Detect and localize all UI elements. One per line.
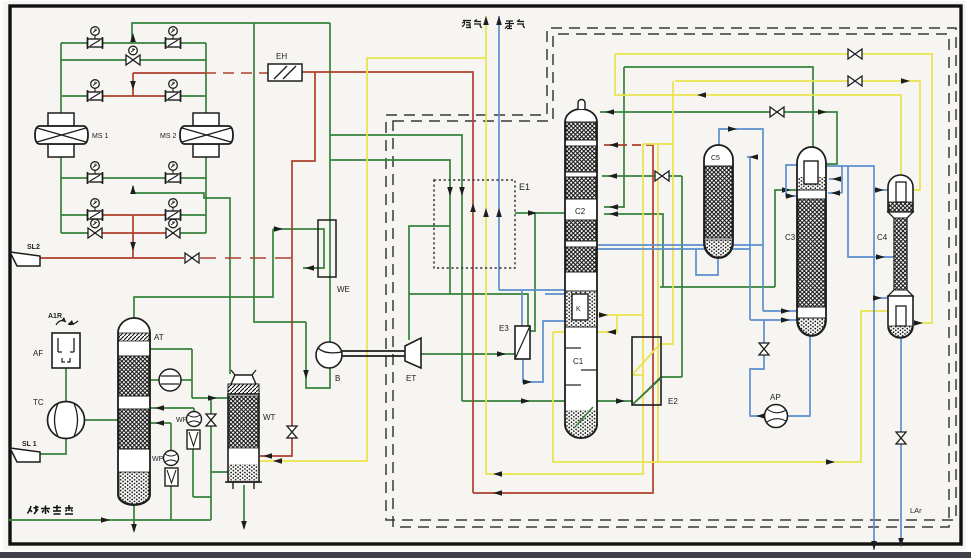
wire green MS valve row B y60 (61, 59, 206, 61)
wire green column C2 feed y207 from x624 (604, 67, 624, 207)
wire blue into C5 top y157 riser x750 (747, 157, 750, 320)
svg-text:C4: C4 (877, 233, 888, 242)
svg-text:AT: AT (154, 333, 164, 342)
wire green MS right riser x206 (205, 43, 207, 113)
wire green WP2 down to water line (170, 482, 172, 520)
wire blue K condenser oxygen line y290 (499, 289, 565, 291)
wire blue LAr product line x901 (900, 338, 902, 432)
wire green E1 mid tap to E3 y294 (409, 294, 528, 326)
wire green WP1 discharge into AT y408 (150, 407, 194, 409)
svg-text:SL2: SL2 (27, 244, 40, 251)
wire green row y233 outer segments (61, 232, 95, 234)
svg-text:MS 2: MS 2 (160, 133, 176, 140)
molecular sieve MS1 (48, 113, 74, 126)
wire green riser x306 to blower B inlet (306, 322, 330, 388)
column C1 tray lines (565, 347, 581, 349)
valve row y215 right (166, 211, 181, 219)
wire green C3 band tap riser x775 (775, 190, 797, 287)
expansion turbine ET (405, 338, 421, 368)
wire red SL2 silencer line y258 (40, 257, 184, 259)
svg-text:C5: C5 (711, 155, 720, 162)
C3 bottom dotted liquid (798, 318, 825, 335)
svg-text:SL 1: SL 1 (22, 441, 37, 448)
wire green row y178 below MS (61, 177, 206, 179)
svg-text:ET: ET (406, 374, 416, 383)
label nitrogen gas chinese (462, 20, 482, 28)
main column shell C1 C2 (565, 109, 597, 438)
condenser K dotted liquid zone (566, 291, 596, 327)
wire green ET to E3 y354 (421, 353, 515, 355)
wire green top loop y112 column dome to C3 (600, 112, 837, 164)
wire yellow K condenser outlet (588, 314, 643, 316)
wire yellow top loop y54 (615, 54, 932, 323)
wire green blower B top riser x330 and feed to E1 (329, 23, 331, 342)
svg-text:WT: WT (263, 413, 276, 422)
wire green column line y214 riser x663 (604, 214, 663, 287)
water pump WP1 motor (187, 430, 200, 449)
valve row D left (88, 92, 103, 100)
subcooler E3 (515, 326, 530, 359)
wire blue AP pump riser with valve (750, 320, 765, 416)
wire green TC to AT (85, 419, 118, 421)
wire blue oxygen product riser x499 (498, 16, 500, 290)
column C2 packing sections crosshatch (566, 122, 596, 140)
wire blue C5 bottom loop (696, 249, 718, 275)
valve LAr line (896, 432, 906, 444)
molecular sieve MS2 (193, 113, 219, 126)
wire red EH feed header y73 (133, 72, 205, 74)
svg-text:AF: AF (33, 349, 43, 358)
valve green loop y112 (770, 107, 784, 117)
valve yellow top y54 (848, 49, 862, 59)
wire green B discharge to E1 x462 (330, 135, 462, 401)
heat exchanger E1 dotted box (434, 180, 515, 268)
cold box boundary outer dashed wall (386, 28, 956, 520)
wire blue column to C5 bottom header y245 (597, 244, 763, 246)
wire blue K line y294 (545, 293, 565, 295)
silencer SL1 (10, 448, 40, 462)
wire green WE to E1 feed x450 (330, 160, 450, 294)
valve row y178 left (88, 174, 103, 182)
wire red EH outlet to E1 x473 (302, 72, 473, 493)
cold box boundary inner dashed wall (393, 34, 949, 527)
absorption tower AT (118, 318, 150, 505)
wire yellow E2 to crude argon riser x675 (660, 81, 673, 344)
valve row y215 left (88, 211, 103, 219)
wire green WP2 line into AT y423 (150, 422, 171, 424)
wire green E1 to column upper feed y213 (515, 212, 535, 214)
blue flow arrows (496, 16, 502, 25)
blower B (316, 342, 342, 368)
wire yellow loop y95 riser x615 (615, 54, 901, 175)
wire green WT top inlet y398 (192, 397, 230, 399)
wire yellow nitrogen product riser x486 (485, 16, 487, 474)
svg-text:AP: AP (770, 393, 781, 402)
argon column C4 top head (888, 175, 913, 212)
svg-text:C3: C3 (785, 233, 796, 242)
svg-text:LAr: LAr (910, 506, 922, 515)
wire green bottom water supply line (8, 519, 211, 521)
wire green loop y287 (660, 286, 775, 288)
wire blue C3 bottom feeds y311 y320 (763, 310, 799, 312)
label external water supply chinese (28, 505, 74, 514)
wire green AT top to WE riser (134, 229, 273, 318)
wire blue C3 condenser reflux loop (786, 165, 804, 196)
valve WT water riser (206, 414, 216, 426)
valve row A left (88, 39, 103, 47)
wire yellow top loop y81 to C4 (675, 81, 920, 190)
wire green ET inlet riser x409 (409, 226, 450, 340)
turbine shaft B-ET (342, 350, 405, 352)
water pump WP2 motor (165, 468, 178, 486)
wire red riser x133 y73-96 (132, 73, 134, 96)
wire green AT reflux pump line y380 (150, 379, 160, 381)
wire red MS rows y215 y233 center (95, 214, 173, 216)
svg-text:B: B (335, 374, 340, 383)
argon column C4 body (888, 212, 913, 296)
scan edge dark strip at bottom (0, 552, 971, 558)
svg-text:EH: EH (276, 52, 287, 61)
wire blue C4 top head inlet y190 (874, 189, 890, 191)
svg-text:TC: TC (33, 398, 44, 407)
wire green top header y23 (132, 23, 330, 43)
subcooler E2 (632, 337, 661, 405)
valve yellow y81 (848, 76, 862, 86)
wire green MS valve row A y43 (61, 42, 206, 44)
red flow arrows (130, 81, 136, 90)
svg-text:WE: WE (337, 285, 350, 294)
wire green WP1 suction down to water line (192, 449, 194, 497)
wire green AT bottom drain (133, 505, 135, 531)
reflux pump circle on AT (159, 369, 181, 391)
wire green SL1 to TC (40, 437, 66, 454)
wire blue C5 top outlet y129 (719, 129, 763, 311)
C3 packing crosshatch (798, 199, 825, 307)
air intake arrows A1R (56, 321, 66, 325)
wire green E3 top-right to column C1 feed (529, 213, 565, 331)
silencer SL2 (10, 252, 40, 266)
green flow arrows (130, 33, 136, 42)
wire green top loop y67 (624, 67, 813, 147)
wire blue riser x842 into C3 y179 y193 (841, 166, 843, 193)
wire yellow C4 bottom outlet y323 (911, 322, 925, 324)
valve WT red riser (287, 426, 297, 438)
argon column C4 bottom head (888, 296, 913, 338)
wire blue header y249 (597, 248, 750, 250)
svg-text:E1: E1 (519, 182, 530, 192)
valve row y178 right (166, 174, 181, 182)
wire blue E3 top feed x522 (521, 290, 523, 326)
wire yellow E2 internal diagonal (633, 344, 660, 374)
wire green E2 outlet riser x682 (661, 376, 682, 378)
wire green E3 internal diagonal (516, 331, 529, 358)
column C1 sump liquid dotted (566, 410, 596, 437)
svg-text:K: K (576, 306, 581, 313)
main column top nozzle (578, 100, 585, 109)
wire green main riser x254 (254, 23, 306, 322)
wire green WT lower inlet y472 (211, 471, 228, 473)
air filter AF (52, 333, 80, 368)
svg-text:C1: C1 (573, 357, 584, 366)
wire green row y215 outer segments (61, 214, 95, 216)
svg-text:WP: WP (152, 456, 164, 463)
wire red MS regeneration row y96 center (95, 95, 173, 97)
wire red into WT y456 (260, 438, 292, 456)
wire blue C3 condenser outlet y166 to C4 drain (818, 166, 874, 550)
wire red bottom loop y493 (473, 145, 653, 493)
svg-text:C2: C2 (575, 207, 586, 216)
butterfly valve y233 right (166, 228, 180, 238)
column sump diagonal (574, 407, 593, 428)
adsorber C5 (704, 145, 733, 258)
svg-text:E2: E2 (668, 397, 678, 406)
wire yellow right bottom run y462 (553, 311, 890, 462)
yellow flow arrows (483, 16, 489, 25)
wire green E2 internal diagonal (633, 378, 661, 404)
wire yellow bottom loop y474 (486, 144, 643, 474)
wire blue C4 bottom head inlet y298 (874, 297, 890, 299)
wire blue E3 bottom loop to column (523, 321, 565, 382)
label oxygen gas chinese (505, 20, 525, 29)
valve column gas y176 (655, 171, 669, 181)
svg-text:A1R: A1R (48, 313, 62, 320)
butterfly valve row B (126, 55, 140, 65)
C3 condenser box (798, 177, 825, 190)
wire green AT right side piping (150, 348, 192, 350)
wire yellow header y58 to WT regeneration (258, 58, 486, 461)
wire green WE inlet y229 and coil (273, 229, 324, 268)
svg-text:MS 1: MS 1 (92, 133, 108, 140)
wire green WT bottom drain (243, 485, 245, 528)
wire green row y193 jog to WT riser (133, 186, 230, 374)
wire green MS row D y96 outer segments (61, 95, 95, 97)
water tower WT (228, 375, 259, 391)
wire red riser x133 to SL2 line (132, 215, 134, 258)
water pump WP2 (164, 451, 179, 466)
condenser K box (572, 294, 588, 320)
water pump WP1 (187, 412, 202, 427)
wire green AF to TC (65, 368, 67, 403)
wire green column bottom to E2 y401 (462, 400, 633, 402)
wire green column bottom dome diagonal (574, 406, 592, 427)
svg-text:WP: WP (176, 417, 188, 424)
wire green WT external water riser x211 (210, 398, 212, 520)
crude argon column C3 (797, 147, 826, 336)
wire red into column y145 (604, 144, 653, 146)
valve SL2 line (185, 253, 199, 263)
wire green riser x682 y176-377 (681, 176, 683, 377)
water cooler WE (318, 220, 336, 277)
butterfly valve y233 left (88, 228, 102, 238)
electric heater EH (268, 64, 302, 81)
valve AP riser (759, 343, 769, 355)
valve row D right (166, 92, 181, 100)
wire green MS left riser x61 (60, 43, 62, 113)
valve row A right (166, 39, 181, 47)
wire blue C3 bottom to AP pump (787, 336, 810, 416)
turbo compressor TC (48, 402, 85, 439)
svg-text:E3: E3 (499, 324, 509, 333)
argon pump AP (765, 405, 788, 428)
wire blue C4 body feed y257 (848, 166, 895, 257)
wire red branch x315 to x292 riser (292, 72, 315, 426)
wire green column gas line y176 with valve (602, 175, 682, 177)
